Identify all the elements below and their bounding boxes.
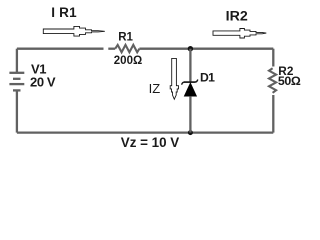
svg-text:IZ: IZ <box>149 81 161 96</box>
voltage source V1 battery <box>9 73 24 91</box>
svg-text:R1: R1 <box>118 31 133 43</box>
wire middle branch upper <box>189 49 191 82</box>
svg-text:D1: D1 <box>200 70 215 84</box>
svg-text:20 V: 20 V <box>30 75 56 90</box>
wire left lower <box>16 91 18 132</box>
wire top-right segment <box>139 48 273 50</box>
current arrow I R1 <box>43 26 105 36</box>
zener diode D1 <box>182 80 198 97</box>
wire right lower <box>272 95 274 133</box>
svg-text:Vz = 10 V: Vz = 10 V <box>121 135 180 150</box>
wire left <box>16 49 18 72</box>
wire top-left segment <box>17 48 104 50</box>
wire right upper <box>272 49 274 67</box>
svg-text:I R1: I R1 <box>51 5 77 20</box>
current arrow IZ <box>170 58 178 99</box>
svg-text:50Ω: 50Ω <box>278 74 301 88</box>
svg-text:200Ω: 200Ω <box>114 55 142 67</box>
wire R1 left lead <box>108 48 115 50</box>
node junction top <box>188 46 193 51</box>
resistor R1 <box>115 45 139 52</box>
svg-text:IR2: IR2 <box>226 8 248 24</box>
wire bottom <box>17 131 273 133</box>
resistor R2 <box>269 68 276 93</box>
wire middle branch lower <box>189 96 191 132</box>
node junction bottom <box>188 130 193 135</box>
current arrow IR2 <box>213 29 266 39</box>
